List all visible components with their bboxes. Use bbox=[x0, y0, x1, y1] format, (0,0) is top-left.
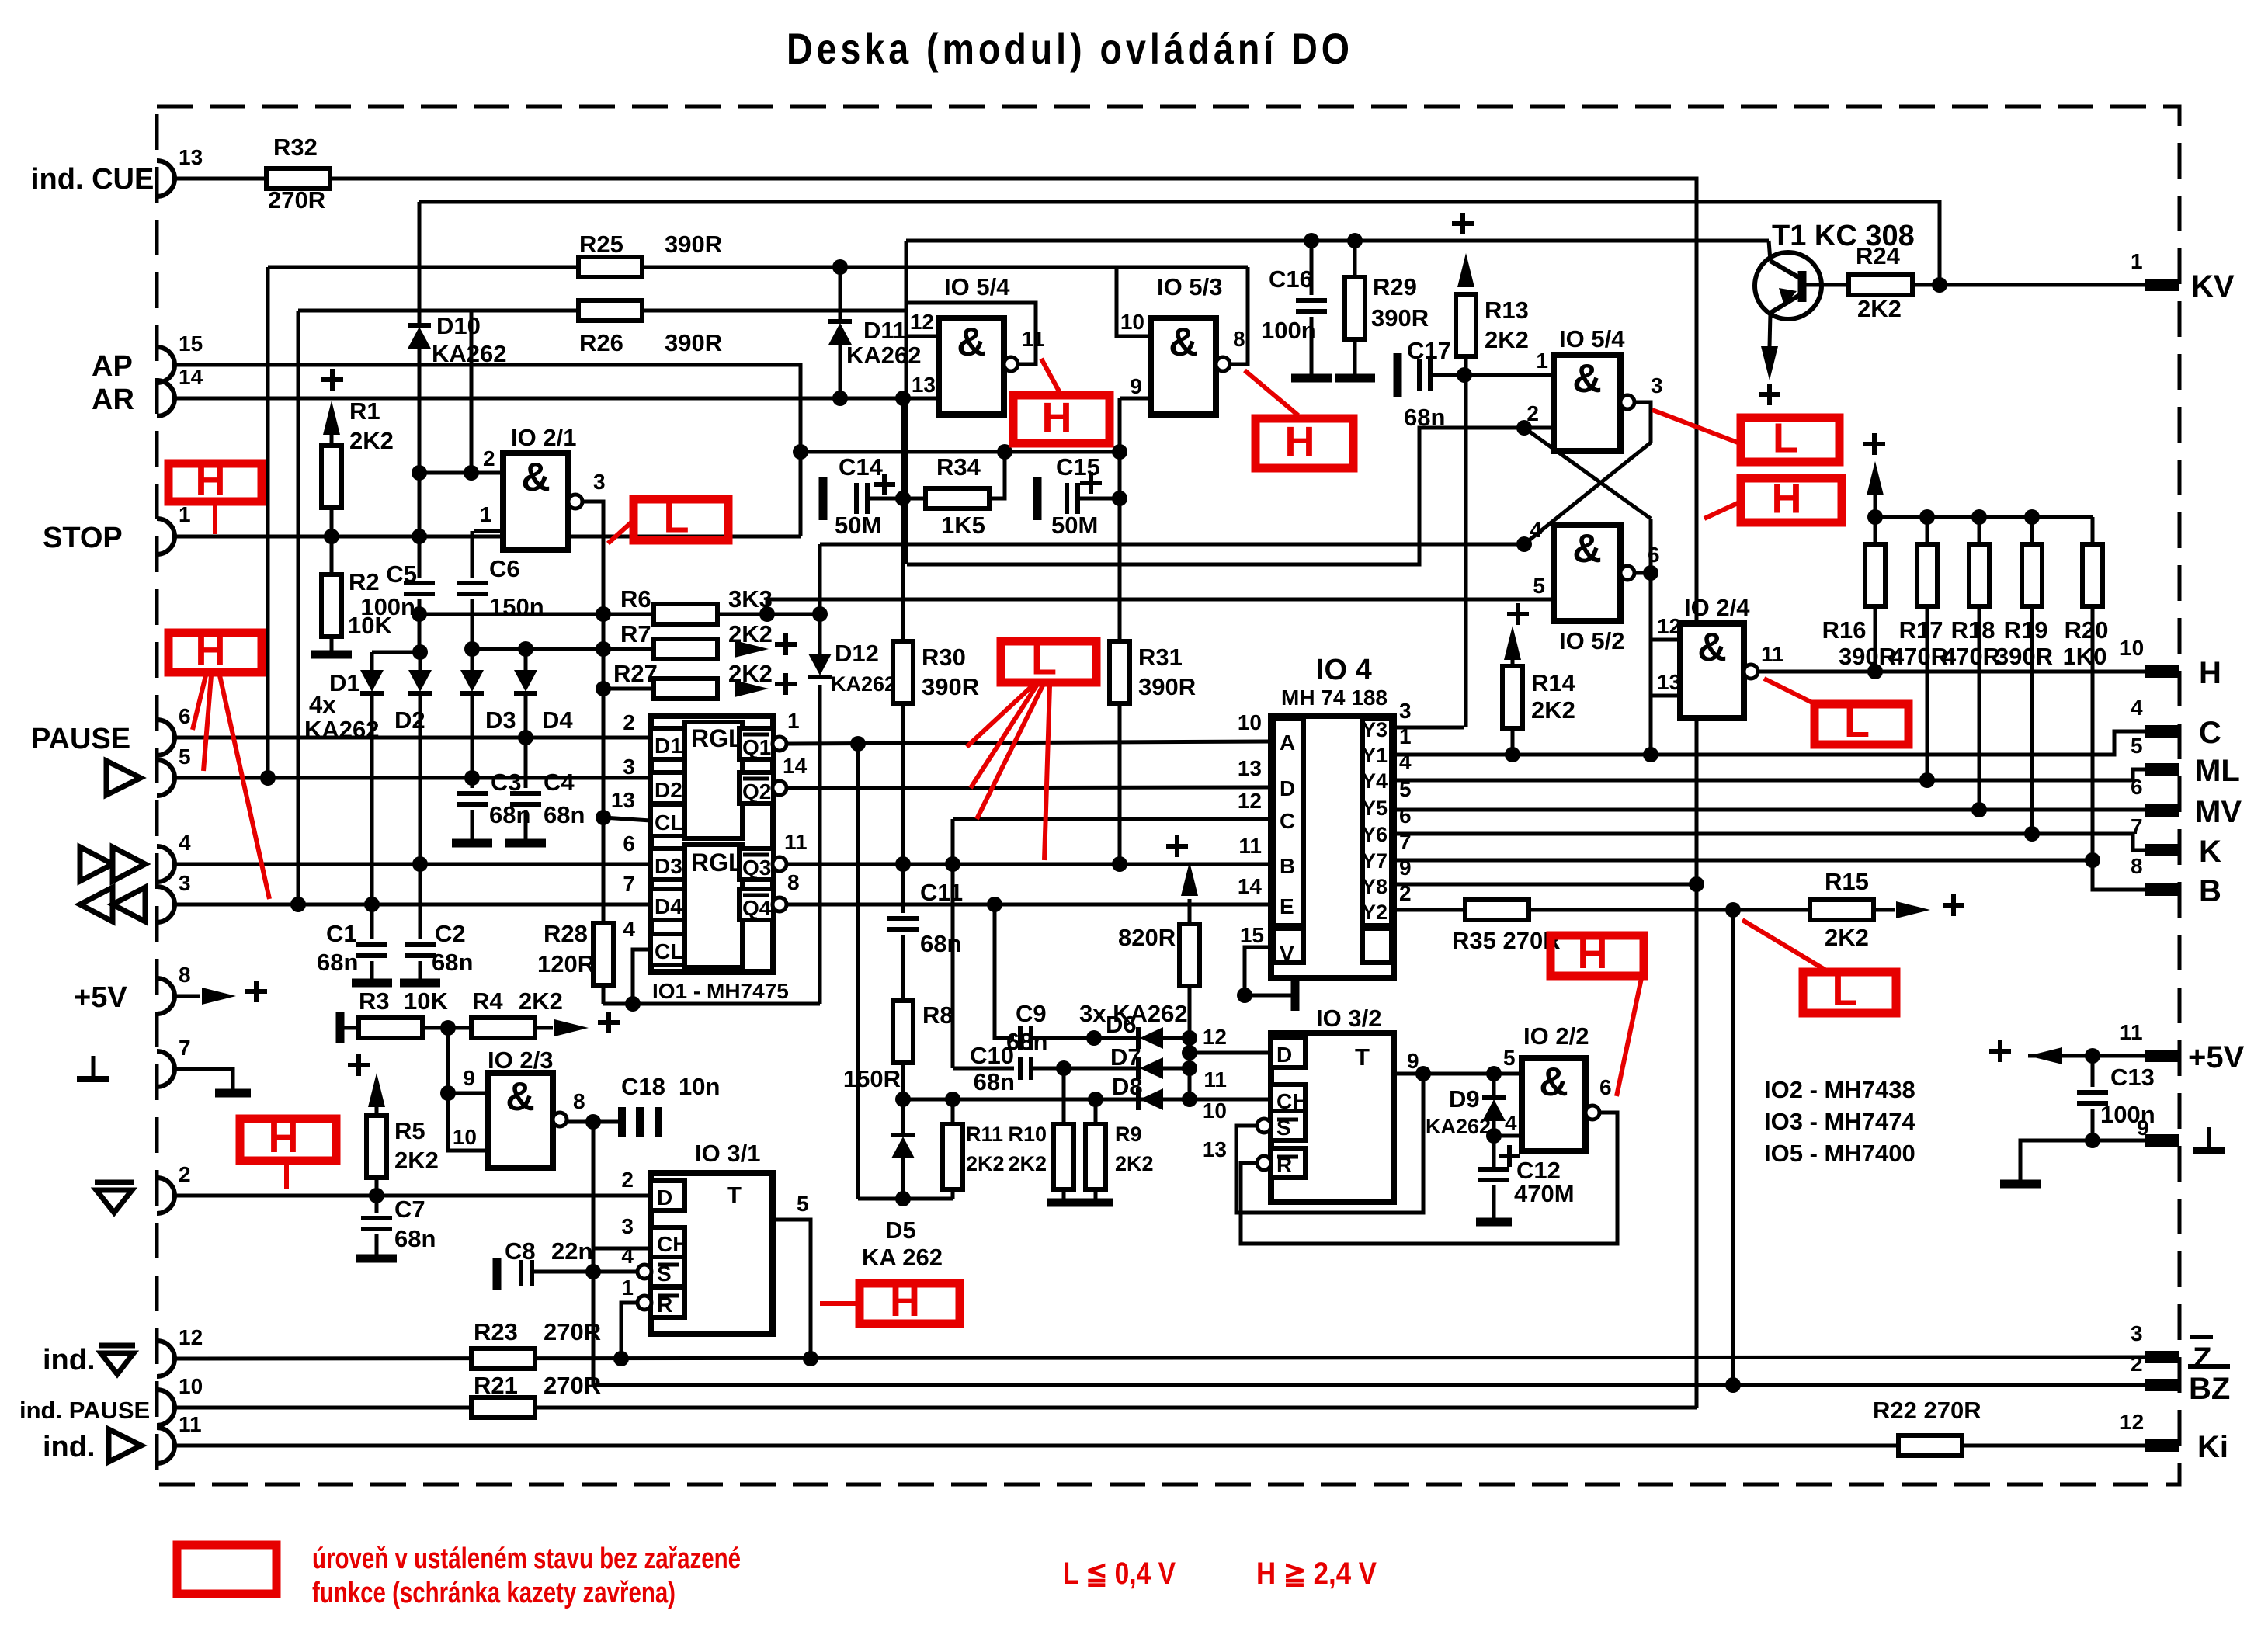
wire R6 to D12 bbox=[818, 614, 822, 654]
svg-text:H: H bbox=[269, 1115, 299, 1161]
svg-text:E: E bbox=[1280, 894, 1294, 918]
wire 820R top bbox=[1188, 899, 1192, 924]
wire D8 anode bbox=[1163, 1098, 1190, 1102]
svg-text:68n: 68n bbox=[317, 949, 358, 976]
ground bar C16 bbox=[1291, 374, 1332, 383]
ground bar C2 bbox=[400, 979, 440, 988]
wire gnd terminal bbox=[175, 1069, 233, 1090]
resistor R32 bbox=[266, 168, 330, 189]
resistor R34 bbox=[926, 488, 989, 509]
svg-text:100n: 100n bbox=[360, 593, 415, 620]
wire D9 top stub bbox=[1492, 1074, 1496, 1098]
wire D6 anode bbox=[1163, 1036, 1190, 1040]
svg-text:Y4: Y4 bbox=[1362, 769, 1388, 793]
wire R30 bottom to B line bbox=[901, 703, 905, 864]
wire vertical 2232 to BZ line bbox=[1731, 910, 1735, 1385]
svg-text:AR: AR bbox=[92, 384, 134, 416]
junction R6/in5 feed bbox=[759, 606, 775, 622]
junction D3/play line bbox=[464, 770, 480, 786]
wire R4 right bbox=[535, 1026, 553, 1030]
svg-text:2: 2 bbox=[483, 446, 495, 470]
svg-text:H: H bbox=[1285, 418, 1315, 465]
svg-text:C13: C13 bbox=[2110, 1064, 2155, 1091]
wire R7 line y836 bbox=[472, 647, 719, 651]
svg-text:6: 6 bbox=[179, 704, 191, 728]
op-ic IO3/2 MH7474 flip-flop bbox=[1271, 1033, 1394, 1202]
svg-text:R14: R14 bbox=[1531, 669, 1576, 696]
rew symbol bbox=[80, 887, 145, 922]
svg-text:10: 10 bbox=[2120, 636, 2144, 660]
svg-text:1: 1 bbox=[787, 709, 800, 733]
wire R3 left bbox=[340, 1026, 359, 1030]
svg-text:270R: 270R bbox=[268, 186, 325, 213]
wire D3 bottom to play line bbox=[471, 693, 474, 786]
start bar C8 bbox=[493, 1258, 502, 1290]
wire C5 bottom to R6 line bbox=[418, 599, 422, 652]
junction C15/column bbox=[1112, 491, 1127, 506]
wire IO1 pin4 elbow bbox=[633, 949, 651, 1004]
svg-text:RGL: RGL bbox=[691, 849, 744, 876]
svg-text:4: 4 bbox=[179, 831, 191, 855]
wire R25 line y344 bbox=[268, 266, 1248, 269]
svg-text:4: 4 bbox=[2131, 696, 2143, 720]
pad pin6 MV bbox=[2145, 804, 2179, 817]
pad pin11 +5V bbox=[2145, 1050, 2179, 1062]
svg-text:funkce (schránka kazety zavřen: funkce (schránka kazety zavřena) bbox=[312, 1577, 676, 1609]
wire out6 column to C line bbox=[1649, 519, 1653, 755]
red line out3 bbox=[1652, 410, 1738, 443]
wire R10 bottom bbox=[1062, 1189, 1066, 1199]
svg-text:6: 6 bbox=[1599, 1075, 1612, 1099]
svg-text:7: 7 bbox=[623, 872, 635, 896]
wire R18 top bbox=[1978, 517, 1981, 544]
red line to PAUSE bbox=[193, 675, 206, 730]
resistor R27 bbox=[654, 679, 717, 699]
junction S loop bbox=[1415, 1066, 1431, 1081]
wire C10 to D7 bbox=[1031, 1067, 1140, 1071]
svg-text:13: 13 bbox=[1238, 756, 1262, 780]
wire R16-R20 top bus bbox=[1875, 515, 2093, 519]
svg-text:R21: R21 bbox=[474, 1372, 518, 1399]
svg-text:IO 5/3: IO 5/3 bbox=[1157, 273, 1222, 300]
capacitor C4 bbox=[510, 793, 541, 804]
resistor R1 bbox=[321, 446, 342, 508]
svg-text:150n: 150n bbox=[489, 593, 544, 620]
svg-text:H: H bbox=[1772, 476, 1802, 522]
svg-text:D7: D7 bbox=[1110, 1043, 1141, 1071]
svg-text:11: 11 bbox=[784, 830, 808, 854]
resistor R18 bbox=[1969, 544, 1989, 606]
svg-text:IO1 - MH7475: IO1 - MH7475 bbox=[652, 979, 789, 1003]
op-gate IO 2/3 NAND bbox=[488, 1073, 553, 1168]
bubble Q3 bbox=[773, 857, 787, 871]
wire C11 to R8 bbox=[901, 935, 905, 1001]
start bar R3 bbox=[336, 1012, 345, 1043]
svg-text:R35 270R: R35 270R bbox=[1452, 927, 1561, 954]
svg-text:390R: 390R bbox=[1371, 304, 1429, 332]
diode D9 bbox=[1482, 1098, 1506, 1121]
svg-text:100n: 100n bbox=[1261, 317, 1316, 344]
wire to ground bar bbox=[2020, 1140, 2093, 1181]
wire diagonal out6 to in2 bbox=[1524, 428, 1651, 519]
svg-text:1: 1 bbox=[621, 1276, 634, 1300]
wire Y3 to R13 column bbox=[1394, 726, 1464, 730]
svg-text:11: 11 bbox=[1238, 834, 1262, 858]
junction D11/AR bbox=[832, 391, 848, 406]
svg-text:C8: C8 bbox=[505, 1237, 536, 1265]
junction C6/D3/R7 line bbox=[464, 641, 480, 657]
junction bbox=[1919, 509, 1935, 525]
junction R30 bottom bbox=[895, 856, 911, 872]
wire IO2/1 output down R27/R28 column bbox=[582, 502, 603, 1004]
wire ind.CUE line to vertical 2185 down to ind.PAUSE line bbox=[175, 179, 1697, 1408]
diode D2 bbox=[408, 670, 432, 693]
svg-text:8: 8 bbox=[179, 963, 191, 987]
wire R6 line y791 bbox=[419, 613, 820, 616]
junction R29 bbox=[1347, 233, 1363, 248]
svg-text:B: B bbox=[1280, 854, 1295, 878]
wire D5 bottom bbox=[901, 1158, 905, 1199]
svg-text:C14: C14 bbox=[839, 453, 884, 481]
svg-text:D5: D5 bbox=[885, 1217, 916, 1244]
svg-text:3: 3 bbox=[2131, 1321, 2143, 1345]
diode D10 bbox=[408, 325, 431, 349]
svg-text:&: & bbox=[521, 455, 551, 500]
wire C7 top bbox=[375, 1196, 379, 1213]
wire +5V pad line bbox=[2028, 1054, 2148, 1058]
svg-text:4: 4 bbox=[1530, 518, 1542, 542]
resistor R21 bbox=[471, 1397, 535, 1418]
output bubble IO 5/4 bbox=[1004, 357, 1018, 371]
wire D4 bottom bbox=[524, 693, 528, 788]
resistor R15 bbox=[1810, 900, 1874, 920]
junction pin4/1293 bbox=[625, 996, 641, 1012]
red box H PAUSE bbox=[168, 633, 262, 672]
wire C10 left bbox=[953, 1067, 1014, 1071]
red line to rewind bbox=[220, 675, 269, 899]
arrow R15 bbox=[1896, 901, 1930, 918]
wire diagonal out3 to in4 bbox=[1524, 443, 1651, 544]
gnd label right bbox=[2193, 1127, 2225, 1151]
junction in4 bbox=[1516, 536, 1532, 552]
wire R11 bottom stub bbox=[951, 1189, 955, 1199]
junction IO5/2 column bbox=[1643, 747, 1658, 762]
terminal pin11 ind.play bbox=[157, 1428, 175, 1463]
wire R9 top bbox=[1094, 1099, 1098, 1127]
bubble Q4 bbox=[773, 897, 787, 911]
junction C9 column bbox=[987, 897, 1002, 912]
svg-text:R16: R16 bbox=[1822, 616, 1867, 644]
svg-text:3x KA262: 3x KA262 bbox=[1079, 1000, 1188, 1027]
wire C9 to D6 bbox=[1031, 1036, 1140, 1040]
BZ overbar bbox=[2188, 1364, 2230, 1369]
wire in2 feed line y727 bbox=[907, 428, 1524, 564]
resistor R23 bbox=[471, 1349, 535, 1369]
junction R14 bottom bbox=[1505, 747, 1520, 762]
svg-text:D2: D2 bbox=[655, 778, 682, 802]
wire IO2/2 pin4 stub bbox=[1494, 1134, 1522, 1138]
red box H out6 bbox=[1741, 478, 1842, 522]
start bar C14 bbox=[819, 477, 828, 520]
svg-text:12: 12 bbox=[910, 310, 934, 334]
svg-text:2K2: 2K2 bbox=[1485, 326, 1529, 353]
wire Ki line bbox=[175, 1444, 2148, 1448]
svg-text:R2: R2 bbox=[349, 568, 380, 595]
red dash IO3/1 bbox=[820, 1301, 857, 1306]
wire D4 top lead bbox=[524, 649, 528, 670]
svg-text:D: D bbox=[1276, 1043, 1292, 1067]
svg-text:4: 4 bbox=[623, 917, 635, 941]
op-ic IO1 MH7475 outer box bbox=[651, 716, 773, 972]
op-gate IO 5/4 NAND bbox=[939, 318, 1004, 415]
diode D5 bbox=[891, 1135, 915, 1158]
wire T1 collector from supply bbox=[1769, 241, 1770, 261]
resistor R6 bbox=[654, 604, 717, 624]
wire in4 feed line y701 bbox=[820, 543, 1524, 547]
red fan line3 bbox=[977, 686, 1043, 819]
junction Q1/x1105 bbox=[850, 736, 866, 752]
svg-text:&: & bbox=[1697, 625, 1727, 670]
svg-text:C: C bbox=[2199, 716, 2221, 750]
svg-text:390R: 390R bbox=[665, 231, 722, 258]
terminal pin10 ind.PAUSE bbox=[157, 1390, 175, 1425]
capacitor C11 bbox=[887, 918, 919, 929]
svg-text:Q2: Q2 bbox=[742, 779, 771, 804]
svg-text:&: & bbox=[1572, 526, 1602, 571]
svg-text:R10: R10 bbox=[1008, 1123, 1047, 1146]
svg-text:T: T bbox=[727, 1182, 742, 1209]
svg-text:IO 3/1: IO 3/1 bbox=[695, 1140, 760, 1167]
svg-text:390R: 390R bbox=[665, 329, 722, 356]
svg-text:K: K bbox=[2199, 835, 2221, 869]
wire IO3/1 out5 down to Z line bbox=[773, 1220, 811, 1359]
svg-text:KV: KV bbox=[2191, 269, 2235, 304]
plus T1 bbox=[1759, 384, 1780, 405]
IO4 left pin cell bbox=[1273, 719, 1304, 925]
wire R19 top bbox=[2030, 517, 2034, 544]
svg-text:15: 15 bbox=[1240, 923, 1264, 947]
diode D1 bbox=[360, 670, 384, 693]
wire in2 stub bbox=[1524, 426, 1554, 430]
red line IO5/4 out bbox=[1041, 359, 1059, 391]
svg-text:C11: C11 bbox=[920, 879, 963, 906]
svg-text:PAUSE: PAUSE bbox=[31, 723, 130, 755]
svg-text:68n: 68n bbox=[432, 949, 473, 976]
wire D10 column down to STOP bbox=[418, 349, 422, 536]
IO1 left pin cells bbox=[651, 728, 685, 759]
svg-text:C5: C5 bbox=[386, 561, 417, 588]
svg-text:4x: 4x bbox=[309, 691, 336, 718]
svg-text:C15: C15 bbox=[1056, 453, 1100, 481]
red box L out3 bbox=[1741, 418, 1839, 462]
svg-text:A: A bbox=[1280, 731, 1295, 755]
svg-text:BZ: BZ bbox=[2189, 1372, 2230, 1406]
capacitor C2 bbox=[405, 945, 436, 956]
ground bar C1 bbox=[352, 979, 392, 988]
wire R pin to Z line bbox=[621, 1303, 637, 1359]
junction KV/y260 bbox=[1932, 277, 1947, 293]
wire to R34 bbox=[903, 497, 927, 501]
junction R13/C17 line bbox=[1457, 367, 1472, 383]
wire vertical x1105 to D5 row bbox=[856, 744, 860, 1199]
wire rew line to IO1 D4 pin7 bbox=[175, 903, 651, 907]
svg-text:STOP: STOP bbox=[43, 522, 123, 554]
op-gate IO 5/4 second NAND bbox=[1554, 355, 1620, 451]
svg-text:820R: 820R bbox=[1118, 924, 1176, 951]
resistor R5 bbox=[366, 1116, 387, 1178]
terminal pin2 eject bbox=[157, 1178, 175, 1213]
bar V pin bbox=[1291, 980, 1300, 1011]
junction D1/rewind line bbox=[364, 897, 380, 912]
svg-text:IO 2/2: IO 2/2 bbox=[1523, 1022, 1589, 1050]
diode D12 bbox=[808, 654, 832, 677]
svg-text:KA 262: KA 262 bbox=[862, 1244, 943, 1271]
wire IO2/4 pin12 stub bbox=[1651, 638, 1680, 642]
junction R27 line x777 bbox=[596, 681, 611, 696]
terminal pin8 +5V bbox=[157, 978, 175, 1014]
svg-text:úroveň v ustáleném stavu bez z: úroveň v ustáleném stavu bez zařazené bbox=[312, 1543, 741, 1575]
diode D3 bbox=[460, 670, 484, 693]
svg-text:9: 9 bbox=[1130, 374, 1142, 398]
junction C9/D6 bbox=[1086, 1030, 1102, 1046]
output bubble IO2/4 bbox=[1744, 665, 1758, 679]
resistor R2 bbox=[321, 574, 342, 637]
red line IO2/2 bbox=[1617, 978, 1641, 1096]
terminal pin7 gnd bbox=[157, 1051, 175, 1087]
svg-text:3: 3 bbox=[623, 755, 635, 779]
junction diode col bbox=[1182, 1092, 1197, 1107]
arrow +5V bbox=[202, 988, 236, 1005]
svg-text:&: & bbox=[1572, 356, 1602, 401]
wire ff line to IO1 D3 pin6 bbox=[175, 863, 651, 866]
start bar C15 bbox=[1033, 477, 1042, 520]
resistor R30 bbox=[893, 641, 913, 703]
svg-text:5: 5 bbox=[1533, 574, 1545, 598]
capacitor C1 bbox=[356, 945, 387, 956]
svg-text:Y6: Y6 bbox=[1362, 823, 1388, 846]
capacitor C17 bbox=[1419, 359, 1430, 391]
bubble R IO3/1 bbox=[637, 1296, 651, 1310]
diode D7 bbox=[1138, 1057, 1163, 1079]
svg-text:IO 2/1: IO 2/1 bbox=[511, 424, 576, 451]
wire C line from Y1 to C pad bbox=[1394, 731, 2148, 755]
wire V pin ground bbox=[1245, 947, 1292, 995]
wire D11 top lead bbox=[839, 267, 842, 323]
svg-text:390R: 390R bbox=[1995, 643, 2053, 670]
svg-text:270R: 270R bbox=[544, 1372, 601, 1399]
red box H eject bbox=[240, 1119, 336, 1161]
svg-text:L: L bbox=[1844, 699, 1870, 746]
svg-text:15: 15 bbox=[179, 332, 203, 356]
wire supply line y310 bbox=[906, 239, 1769, 243]
svg-text:D9: D9 bbox=[1449, 1085, 1480, 1113]
svg-text:IO2 - MH7438: IO2 - MH7438 bbox=[1764, 1076, 1915, 1103]
svg-text:Y8: Y8 bbox=[1362, 875, 1388, 898]
wire C14 to junction bbox=[869, 497, 903, 501]
svg-text:270R: 270R bbox=[544, 1318, 601, 1345]
wire T1 collector diag bbox=[1770, 261, 1802, 279]
svg-text:C17: C17 bbox=[1407, 337, 1451, 364]
wire C12 bottom bbox=[1492, 1185, 1496, 1219]
junction gnd9 bbox=[2085, 1133, 2100, 1148]
svg-text:13: 13 bbox=[1657, 670, 1681, 694]
red fan line4 bbox=[1044, 686, 1050, 860]
svg-text:11: 11 bbox=[2120, 1020, 2143, 1044]
svg-text:3: 3 bbox=[179, 871, 191, 895]
svg-text:8: 8 bbox=[1233, 327, 1245, 351]
resistor R20 bbox=[2082, 544, 2103, 606]
wire vertical 1227 bbox=[951, 819, 955, 1068]
plus R4 bbox=[598, 1012, 620, 1033]
svg-text:R7: R7 bbox=[620, 620, 651, 647]
svg-text:120R: 120R bbox=[537, 950, 595, 977]
wire R34 right up bbox=[989, 452, 1005, 498]
op-gate IO 2/1 NAND bbox=[503, 453, 568, 550]
svg-text:+5V: +5V bbox=[2188, 1040, 2245, 1074]
terminal pin12 ind.eject bbox=[157, 1341, 175, 1376]
svg-text:Y7: Y7 bbox=[1362, 849, 1388, 873]
red box H STOP bbox=[168, 463, 262, 502]
resistor R13 bbox=[1456, 294, 1476, 356]
junction bbox=[1971, 509, 1987, 525]
svg-text:R29: R29 bbox=[1373, 273, 1417, 300]
junction R16 bottom bbox=[1867, 664, 1883, 679]
svg-text:Q3: Q3 bbox=[742, 856, 771, 880]
svg-text:C1: C1 bbox=[326, 920, 357, 947]
wire eject line to IO3/1 D bbox=[175, 1194, 651, 1198]
svg-text:D4: D4 bbox=[655, 894, 682, 918]
wire D input bbox=[1190, 1051, 1271, 1055]
plus +5V bbox=[245, 981, 267, 1002]
svg-text:MH 74 188: MH 74 188 bbox=[1281, 686, 1388, 710]
wire Q1 to IO4 A bbox=[787, 741, 1271, 744]
junction D2 top bbox=[412, 644, 428, 660]
svg-text:14: 14 bbox=[1238, 874, 1263, 898]
terminal pin6 PAUSE bbox=[157, 720, 175, 755]
junction R1/R2 on STOP bbox=[324, 529, 339, 544]
svg-text:50M: 50M bbox=[1051, 512, 1098, 539]
svg-text:68n: 68n bbox=[974, 1068, 1015, 1095]
wire C15 to junction bbox=[1078, 497, 1120, 501]
wire C5 top bbox=[418, 536, 422, 578]
op-ic IO3/1 MH7474 flip-flop bbox=[651, 1173, 773, 1334]
ind eject symbol bbox=[99, 1345, 135, 1374]
svg-text:D3: D3 bbox=[655, 854, 682, 878]
svg-text:7: 7 bbox=[179, 1036, 191, 1060]
svg-text:&: & bbox=[1169, 320, 1198, 365]
svg-text:C4: C4 bbox=[544, 769, 575, 796]
junction bbox=[1182, 1030, 1197, 1046]
pad pin7 K bbox=[2145, 844, 2179, 856]
capacitor C5 bbox=[404, 583, 435, 594]
wire ind.PAUSE line bbox=[175, 1406, 1697, 1410]
wire IO5/3 pin9 column bbox=[1118, 398, 1122, 641]
svg-text:R4: R4 bbox=[472, 988, 503, 1015]
junction V gnd bbox=[1237, 988, 1252, 1003]
junction C13 top bbox=[2085, 1048, 2100, 1064]
plus +5V right bbox=[1989, 1040, 2011, 1062]
arrow R14 plus bbox=[1504, 626, 1521, 660]
terminal pin13 ind.CUE bbox=[157, 161, 175, 196]
junction pin9 bbox=[440, 1085, 456, 1101]
wire CH pin3 stub bbox=[593, 1247, 651, 1251]
capacitor C7 bbox=[361, 1218, 392, 1229]
plus 820R bbox=[1166, 835, 1188, 857]
svg-text:1K0: 1K0 bbox=[2063, 643, 2107, 670]
svg-text:D10: D10 bbox=[436, 312, 481, 339]
svg-text:2K2: 2K2 bbox=[1857, 295, 1902, 322]
svg-text:3: 3 bbox=[621, 1214, 634, 1238]
